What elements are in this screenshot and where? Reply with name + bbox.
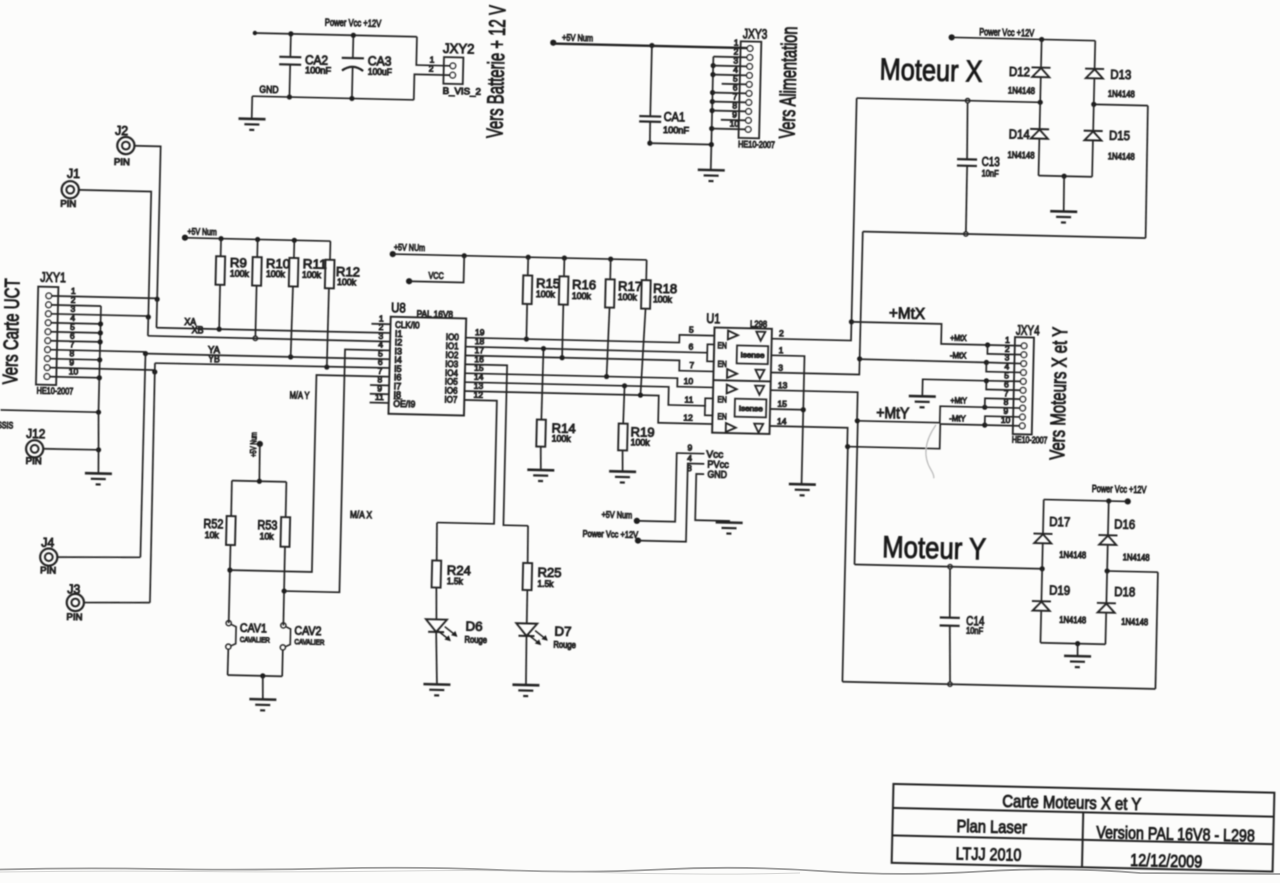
label CAV1 [240, 621, 268, 636]
label GND [259, 85, 278, 96]
label PIN (J2) [114, 157, 130, 167]
resistor R9 [214, 238, 225, 329]
wire IO3 net (pin16 to R25) [461, 364, 531, 525]
label Vers Batterie + 12 V [481, 4, 510, 138]
wire +MtY net [857, 402, 987, 424]
ground (cap filter) [238, 96, 266, 130]
ground (R19) [609, 471, 636, 483]
svg-text:-MtY: -MtY [949, 413, 966, 423]
wire +MtX to JXY4 pin2 [987, 345, 1021, 355]
node +5V NUm [390, 242, 426, 258]
svg-text:XB: XB [191, 325, 204, 336]
svg-text:Power Vcc +12V: Power Vcc +12V [1092, 483, 1147, 496]
wire +12V top (Moteur Y) [1044, 497, 1128, 504]
node M/A Y junction (R52) [227, 567, 232, 572]
connector JXY1 [36, 287, 58, 385]
svg-text:1N4148: 1N4148 [1059, 615, 1086, 626]
svg-text:100k: 100k [266, 269, 286, 279]
node XA junction [154, 297, 159, 302]
label J2 [115, 123, 128, 138]
wire bottom (Moteur X to -MtX) [860, 232, 1146, 366]
label JXY1 [40, 268, 66, 285]
svg-text:IO7: IO7 [444, 394, 457, 404]
label R9 [230, 255, 247, 270]
svg-text:10k: 10k [259, 531, 274, 541]
node VCC (U8 supply) [406, 270, 444, 285]
label D17 [1049, 514, 1070, 529]
svg-text:2: 2 [779, 328, 784, 338]
diode D18 [1096, 571, 1117, 645]
svg-text:HE10-2007: HE10-2007 [1012, 435, 1048, 446]
wire U1 pin13 to +MtY [770, 390, 858, 421]
svg-text:4: 4 [687, 453, 692, 463]
label 4 (PVcc) [687, 453, 692, 463]
label 1N4148 (D16) [1123, 552, 1150, 563]
svg-text:Moteur X: Moteur X [879, 52, 983, 89]
label 10k (R53) [259, 531, 274, 541]
svg-text:1.5k: 1.5k [447, 576, 464, 586]
diode D19 [1031, 569, 1052, 643]
svg-text:+5V Num: +5V Num [601, 510, 632, 522]
resistor R15 [522, 257, 533, 339]
resistor R24 [431, 522, 442, 619]
label 100k (R15) [536, 289, 556, 299]
wire mid-left (Moteur X to +MtX) [852, 96, 1043, 327]
svg-text:+MtX: +MtX [889, 305, 926, 323]
label Vers Carte UCT [0, 278, 25, 385]
label R18 [653, 281, 677, 297]
label M/A Y [289, 390, 309, 401]
svg-text:JXY1: JXY1 [40, 268, 66, 285]
svg-text:100nF: 100nF [663, 125, 690, 136]
svg-text:CAVALIER: CAVALIER [294, 637, 325, 647]
wire U1 pin2 to +MtX [772, 320, 852, 341]
scanner edge artifact (bottom) [0, 868, 1280, 874]
label L298 [750, 319, 767, 329]
svg-text:Version PAL 16V8 - L298: Version PAL 16V8 - L298 [1096, 822, 1255, 846]
wire J1 to XB [76, 190, 151, 317]
connector J1 (PIN) [61, 181, 79, 199]
label Power Vcc +12V (top-left) [325, 17, 382, 30]
svg-text:11: 11 [684, 395, 693, 405]
label XB [191, 325, 204, 336]
label +MtY (small) [950, 395, 967, 405]
wire Vcc pin 9 [637, 452, 705, 522]
node YA junction [143, 351, 148, 356]
ground (JXY1 bus) [85, 473, 112, 485]
label D6 [465, 618, 482, 633]
svg-text:1N4148: 1N4148 [1123, 552, 1150, 563]
resistor R10 [251, 239, 262, 336]
svg-text:10: 10 [1001, 415, 1011, 425]
wire -MtY net [848, 419, 988, 449]
svg-text:100k: 100k [337, 277, 357, 287]
node +5V Num (U1 logic supply) [601, 510, 640, 524]
svg-text:1N4148: 1N4148 [1108, 151, 1135, 162]
svg-text:D6: D6 [465, 618, 482, 633]
svg-text:13: 13 [778, 380, 788, 390]
label 1N4148 (D15) [1108, 151, 1135, 162]
label 1N4148 (D18) [1121, 617, 1148, 628]
svg-text:EN: EN [717, 394, 727, 404]
label R16 [572, 277, 596, 293]
svg-text:JXY2: JXY2 [443, 40, 475, 57]
svg-text:+5V NUm: +5V NUm [394, 242, 426, 254]
connector JXY2 [443, 57, 463, 84]
label M/A X [350, 510, 373, 522]
svg-text:VCC: VCC [428, 271, 444, 282]
svg-text:D17: D17 [1049, 514, 1070, 529]
svg-text:U8: U8 [391, 299, 406, 315]
label Version PAL 16V8 - L298 [1096, 822, 1255, 846]
label PIN (J3) [66, 612, 82, 622]
label HE10-2007 (JXY3) [738, 139, 775, 150]
label J1 [67, 166, 80, 181]
svg-text:EN: EN [717, 340, 727, 350]
wire -MtX to JXY4 pins 3/4 [986, 362, 1021, 372]
svg-text:100nF: 100nF [305, 65, 332, 76]
wire J2 to XA [131, 146, 161, 299]
svg-text:D18: D18 [1114, 584, 1135, 599]
ground (CAV) [249, 699, 276, 711]
node XB junction [146, 314, 151, 319]
svg-text:D19: D19 [1049, 583, 1070, 598]
wire CA1 ground bus bottom [650, 143, 711, 144]
svg-text:Vers Alimentation: Vers Alimentation [774, 26, 802, 139]
svg-text:100k: 100k [302, 269, 322, 279]
label C13 [981, 154, 1000, 169]
diode D13 [1084, 40, 1104, 104]
connector J4 (PIN) [40, 548, 58, 566]
label CA2 [305, 52, 328, 68]
label B_VIS_2 [443, 86, 482, 97]
label EN (pin 12) [717, 411, 727, 421]
svg-text:11: 11 [375, 392, 384, 402]
capacitor C14 [938, 564, 961, 686]
label HE10-2007 (JXY4) [1012, 435, 1048, 446]
label PIN (J12) [26, 456, 42, 466]
ground (D6) [423, 684, 450, 696]
connector J3 (PIN) [67, 594, 85, 612]
resistor R53 [279, 482, 291, 626]
label D12 [1009, 64, 1030, 79]
label 100k (R17) [618, 292, 638, 302]
svg-text:100k: 100k [630, 437, 650, 447]
wire IO2 net (pin17 to U1 pin7) [465, 353, 714, 372]
svg-text:Carte Moteurs X et Y: Carte Moteurs X et Y [1002, 791, 1142, 814]
svg-text:PIN: PIN [114, 157, 130, 167]
label 100k (R19) [630, 437, 650, 447]
wire YB to J3 [149, 363, 155, 603]
label 1N4148 (D17) [1059, 549, 1086, 560]
svg-text:PAL 16V8: PAL 16V8 [416, 309, 453, 321]
resistor R14 [536, 348, 548, 470]
label 1N4148 (D14) [1007, 150, 1034, 161]
diode D16 [1098, 501, 1119, 571]
svg-text:10k: 10k [205, 530, 220, 540]
label -MtY (small) [949, 413, 966, 423]
wire PVcc pin 4 [638, 462, 704, 542]
node -MtY junction [845, 444, 850, 449]
wire YB net [155, 361, 390, 372]
jumper CAV2 (CAVALIER) [280, 623, 291, 650]
label Vers Moteurs X et Y [1046, 327, 1072, 460]
svg-text:J3: J3 [67, 582, 80, 597]
node M/A X junction (R53) [281, 588, 286, 593]
wire XA net [156, 325, 390, 336]
label EN (pin 7) [717, 359, 727, 369]
svg-text:SSIS: SSIS [0, 420, 13, 430]
wire CAV bottom [228, 649, 283, 679]
svg-text:2: 2 [429, 64, 434, 74]
label JXY3 [743, 25, 768, 42]
wire +5V Num to JXY3 pin 1 [553, 43, 747, 47]
wire bus to ground [95, 412, 102, 473]
svg-text:GND: GND [707, 470, 727, 481]
svg-text:3: 3 [778, 363, 783, 373]
svg-text:100k: 100k [536, 289, 556, 299]
svg-text:15: 15 [777, 399, 787, 409]
svg-text:5: 5 [689, 325, 694, 335]
wire bridge bottom (Moteur Y) [1040, 640, 1105, 657]
svg-text:+MtX: +MtX [950, 333, 967, 343]
label Rouge (D6) [464, 635, 487, 646]
svg-text:1N4148: 1N4148 [1007, 150, 1034, 161]
IC U1 L298 body [712, 327, 772, 433]
wire GND rail bottom (cap filter) [252, 96, 414, 100]
svg-text:100k: 100k [230, 268, 250, 278]
label 100k (R16) [572, 291, 592, 301]
svg-text:Isense: Isense [739, 404, 763, 414]
svg-text:PIN: PIN [40, 565, 56, 575]
svg-text:10nF: 10nF [966, 626, 984, 636]
label J4 [41, 535, 54, 550]
svg-text:100k: 100k [618, 292, 638, 302]
scan artifact: faint hair curve near JXY4 [925, 425, 936, 479]
label Rouge (D7) [553, 640, 576, 651]
diode D14 [1029, 102, 1050, 176]
U8 left pin names [393, 320, 420, 409]
svg-text:C13: C13 [981, 154, 1000, 169]
label 100nF (CA2) [305, 65, 332, 76]
U8 left pin numbers [375, 313, 386, 402]
ground (JXY4) [909, 396, 936, 408]
wire to JXY2 pin 2 [414, 74, 450, 100]
label 10k (R52) [205, 530, 220, 540]
label 1N4148 (D12) [1008, 85, 1035, 96]
label R17 [618, 278, 642, 294]
label 12/12/2009 [1130, 850, 1202, 872]
wire IO6 net (pin13 to U1 pin12) [464, 388, 713, 424]
node +5V Num (JXY3) [550, 32, 593, 46]
wire VCC to rail [409, 254, 464, 282]
svg-text:M/A X: M/A X [350, 510, 373, 522]
wire +12V top (Moteur X) [952, 35, 1096, 44]
label LTJJ 2010 [955, 844, 1021, 866]
U1 EN notch (pin 6) [707, 344, 714, 361]
ground (R14) [527, 470, 554, 482]
wire mid-right (Moteur Y) [1102, 568, 1158, 689]
label PVcc [707, 460, 729, 471]
svg-text:B_VIS_2: B_VIS_2 [443, 86, 482, 97]
label Moteur Y [882, 529, 987, 566]
connector J2 (PIN) [117, 137, 135, 155]
svg-text:J1: J1 [67, 166, 80, 181]
label 100nF (CA1) [663, 125, 690, 136]
svg-text:GND: GND [259, 85, 278, 96]
capacitor C13 [955, 98, 978, 236]
node +5V Num (R52 rail) [248, 432, 263, 457]
node Power Vcc +12V (U1 motor supply) [582, 529, 641, 544]
label 100k (R9) [230, 268, 250, 278]
svg-text:PIN: PIN [66, 612, 82, 622]
label R53 [257, 517, 277, 532]
svg-text:Rouge: Rouge [553, 640, 576, 651]
wire J3 lead [84, 601, 150, 604]
svg-text:100k: 100k [552, 434, 572, 444]
ground (U1 power) [715, 522, 742, 534]
svg-text:LTJJ 2010: LTJJ 2010 [955, 844, 1021, 866]
resistor R12 [323, 241, 335, 367]
label C14 [966, 613, 985, 628]
svg-text:12: 12 [683, 413, 693, 423]
connector JXY1 pin wires [50, 285, 158, 379]
label D18 [1114, 584, 1135, 599]
wire chassis net [0, 407, 101, 415]
resistor R19 [618, 386, 629, 472]
node YB corner [152, 369, 157, 374]
capacitor CA1 [639, 43, 663, 146]
svg-text:8: 8 [687, 463, 692, 473]
wire IO1 net (pin18 to U1 pin6) [465, 344, 707, 355]
ground (D7) [512, 685, 539, 697]
label D14 [1009, 127, 1030, 142]
svg-text:1: 1 [779, 345, 784, 355]
label Vers Alimentation [774, 26, 802, 139]
label R25 [537, 564, 561, 580]
capacitor CA2 [278, 31, 302, 100]
label 1N4148 (D13) [1108, 89, 1135, 100]
svg-text:D16: D16 [1114, 517, 1135, 532]
U1 amplifier triangles (bottom half) [726, 384, 764, 432]
svg-text:-MtX: -MtX [950, 350, 967, 360]
svg-text:J2: J2 [115, 123, 128, 138]
label 100k (R18) [653, 294, 673, 304]
ground (Moteur X bridge) [1050, 211, 1077, 223]
label D19 [1049, 583, 1070, 598]
wire to ground (CAV) [262, 676, 263, 700]
svg-text:JXY3: JXY3 [743, 25, 768, 42]
wire mid-right (Moteur X) [1088, 102, 1149, 238]
node -MtX junction [857, 356, 862, 361]
svg-text:1N4148: 1N4148 [1121, 617, 1148, 628]
resistor R18 [639, 260, 651, 395]
connector J12 (PIN) [26, 440, 44, 458]
ground (Moteur Y bridge) [1064, 656, 1091, 668]
label JXY2 [443, 40, 475, 57]
resistor R52 [224, 481, 236, 624]
wire bottom (Moteur Y to -MtY) [842, 447, 1160, 689]
label R14 [552, 420, 576, 436]
svg-text:Isense: Isense [740, 350, 764, 360]
label CAV2 [294, 624, 322, 639]
connector JXY3 pin wires [551, 33, 747, 129]
svg-text:PIN: PIN [60, 199, 76, 209]
label R10 [266, 256, 290, 272]
label +MtY (big) [876, 405, 909, 423]
label pin 1 (JXY2) [430, 54, 435, 64]
wire YA net [145, 351, 389, 362]
svg-text:Power Vcc +12V: Power Vcc +12V [325, 17, 382, 30]
node Power Vcc +12V (Moteur X) [949, 26, 1035, 43]
JXY4 pin numbers [1001, 335, 1013, 425]
svg-text:OE/I9: OE/I9 [393, 399, 415, 410]
wire XA vertical [155, 299, 158, 327]
wire +5V Num rail (R9-R12) [185, 235, 331, 244]
label PIN (J4) [40, 565, 56, 575]
wire JXY3 bus [708, 57, 716, 171]
title block frame [892, 784, 1275, 872]
svg-text:CA1: CA1 [664, 109, 686, 124]
svg-text:Vers Batterie + 12 V: Vers Batterie + 12 V [481, 4, 510, 138]
svg-text:12/12/2009: 12/12/2009 [1130, 850, 1202, 872]
wire +MtY to JXY4 pins 7/8 [985, 398, 1020, 408]
wire U1 pin14 to -MtY [769, 426, 847, 447]
svg-text:Power Vcc +12V: Power Vcc +12V [583, 529, 639, 541]
label YB [208, 354, 221, 365]
svg-text:U1: U1 [706, 310, 721, 326]
svg-text:100k: 100k [653, 294, 673, 304]
wire IO0 net (pin19 to U1 pin5) [466, 330, 715, 346]
label pin 2 (JXY2) [429, 64, 434, 74]
label Carte Moteurs X et Y [1002, 791, 1142, 814]
svg-text:J4: J4 [41, 535, 54, 550]
label Moteur X [879, 52, 983, 89]
U1 right pin numbers [777, 328, 789, 426]
label Plan Laser [956, 816, 1027, 838]
label 10nF (C14) [966, 626, 984, 636]
wire -MtY to JXY4 pins 9/10 [985, 416, 1020, 426]
label CA3 [368, 53, 392, 69]
label 8 (GND) [687, 463, 692, 473]
label 9 (Vcc) [687, 443, 692, 453]
svg-text:Plan Laser: Plan Laser [956, 816, 1027, 838]
label 10nF (C13) [982, 168, 1000, 178]
label R12 [336, 264, 360, 280]
label 1N4148 (D19) [1059, 615, 1086, 626]
diode D17 [1033, 499, 1054, 569]
node Power Vcc +12V (Moteur Y) [1092, 483, 1147, 505]
label R19 [630, 424, 654, 440]
label D13 [1110, 67, 1131, 82]
label +MtX (big) [889, 305, 926, 323]
svg-text:HE10-2007: HE10-2007 [738, 139, 775, 150]
wire U1 pin3 to -MtX [771, 357, 860, 375]
wire +5V NUm rail [393, 251, 647, 262]
label 100uF (CA3) [368, 67, 393, 78]
label -MtX (small) [950, 350, 967, 360]
IC U8 PAL 16V8 body [388, 317, 466, 416]
svg-text:EN: EN [717, 359, 727, 369]
svg-text:JXY4: JXY4 [1016, 322, 1040, 339]
svg-text:Vers Moteurs X et Y: Vers Moteurs X et Y [1046, 327, 1072, 460]
svg-text:EN: EN [717, 411, 727, 421]
svg-text:D7: D7 [554, 623, 571, 638]
svg-text:100uF: 100uF [368, 67, 393, 78]
label YA [208, 345, 221, 356]
label U8 [391, 299, 406, 315]
svg-text:9: 9 [687, 443, 692, 453]
